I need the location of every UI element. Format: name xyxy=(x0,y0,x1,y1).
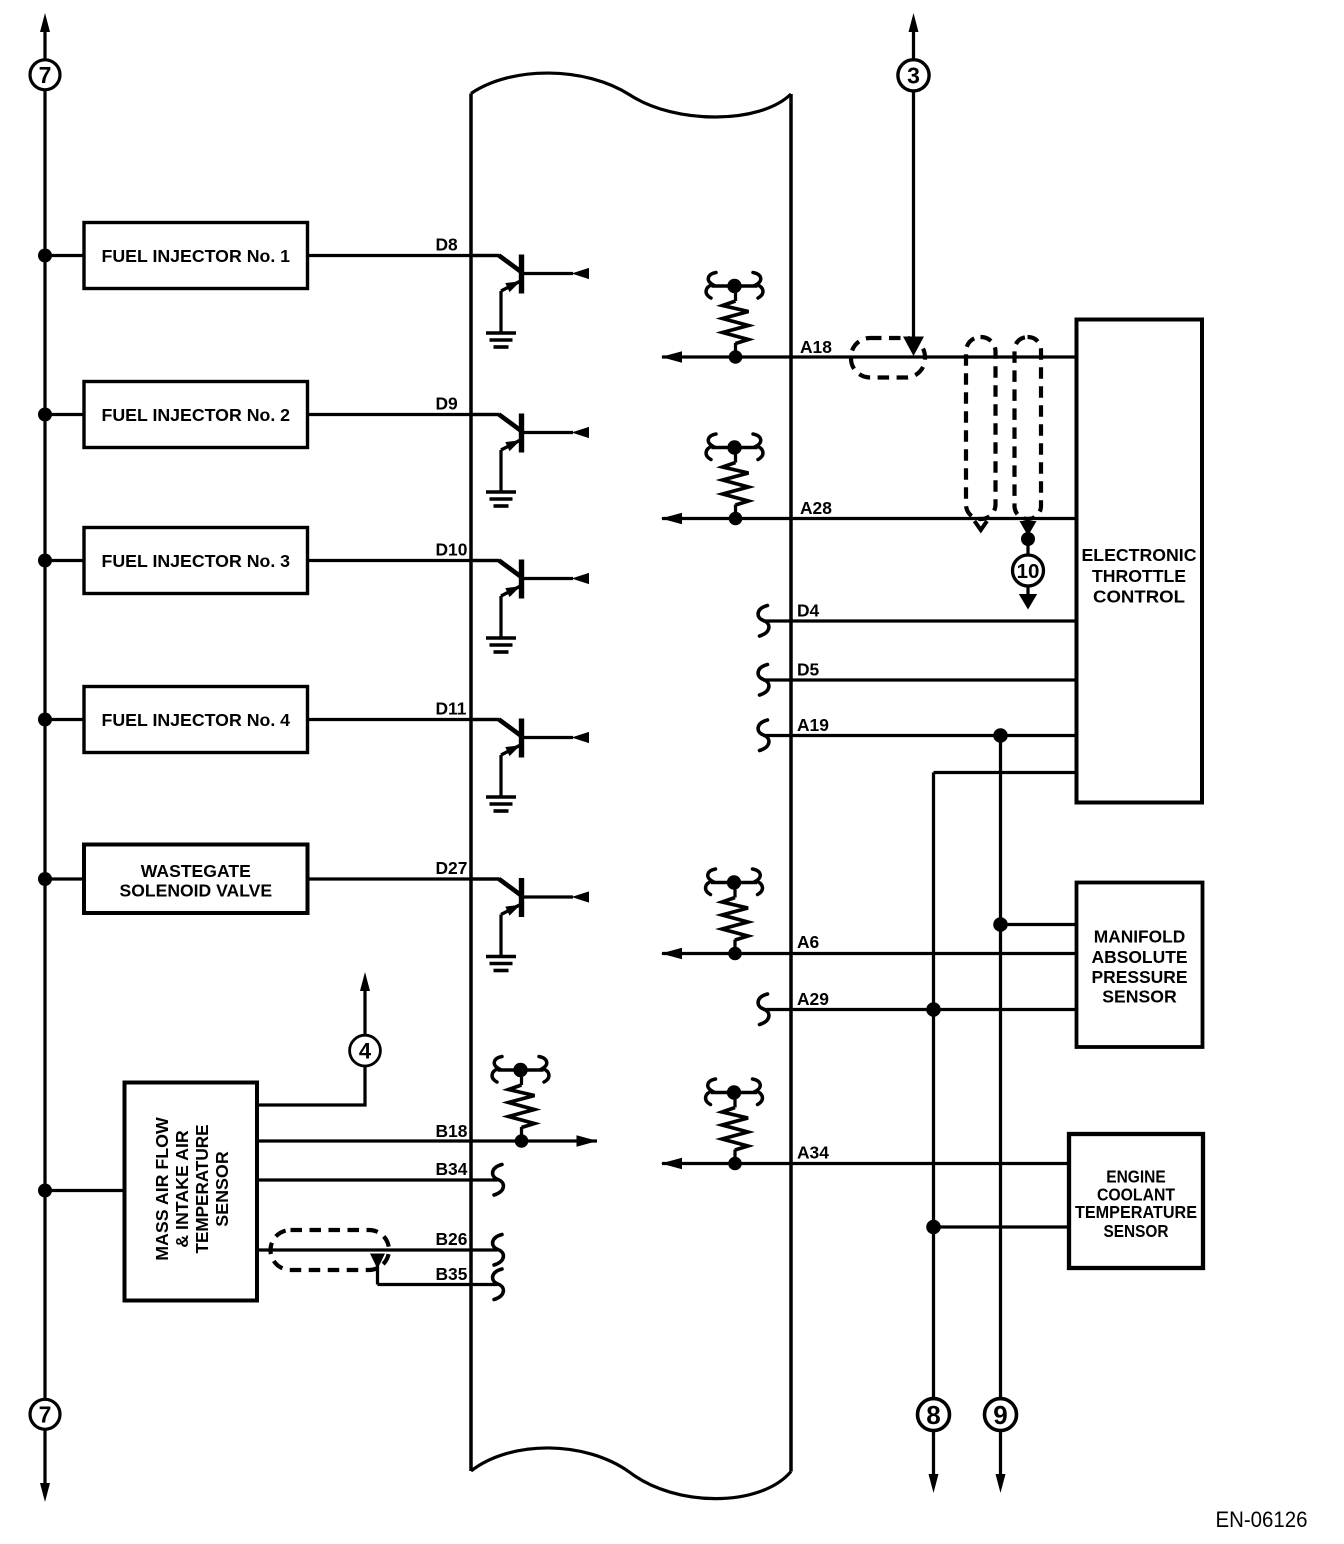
svg-text:TEMPERATURE: TEMPERATURE xyxy=(192,1125,212,1254)
svg-text:MANIFOLD: MANIFOLD xyxy=(1094,927,1186,947)
svg-text:TEMPERATURE: TEMPERATURE xyxy=(1075,1202,1197,1222)
svg-text:4: 4 xyxy=(359,1039,372,1064)
svg-text:B26: B26 xyxy=(436,1229,468,1249)
svg-text:ELECTRONIC: ELECTRONIC xyxy=(1082,545,1197,565)
svg-text:SENSOR: SENSOR xyxy=(1104,1221,1169,1241)
svg-text:FUEL INJECTOR No. 3: FUEL INJECTOR No. 3 xyxy=(102,551,291,571)
svg-text:A19: A19 xyxy=(797,715,829,735)
svg-text:A28: A28 xyxy=(800,498,832,518)
svg-text:7: 7 xyxy=(39,1402,52,1428)
svg-text:A18: A18 xyxy=(800,337,832,357)
svg-text:SENSOR: SENSOR xyxy=(1102,987,1177,1007)
svg-text:B35: B35 xyxy=(436,1264,468,1284)
svg-text:FUEL INJECTOR No. 1: FUEL INJECTOR No. 1 xyxy=(102,246,291,266)
svg-text:SENSOR: SENSOR xyxy=(212,1151,232,1227)
svg-text:D10: D10 xyxy=(436,540,468,560)
svg-text:CONTROL: CONTROL xyxy=(1093,587,1185,607)
svg-text:D5: D5 xyxy=(797,660,820,680)
svg-text:& INTAKE AIR: & INTAKE AIR xyxy=(172,1130,192,1248)
svg-text:WASTEGATE: WASTEGATE xyxy=(141,861,251,881)
svg-text:PRESSURE: PRESSURE xyxy=(1092,967,1188,987)
svg-text:EN-06126: EN-06126 xyxy=(1216,1507,1308,1532)
svg-text:9: 9 xyxy=(993,1400,1007,1430)
svg-text:SOLENOID VALVE: SOLENOID VALVE xyxy=(120,881,273,901)
svg-text:8: 8 xyxy=(926,1400,940,1430)
svg-text:D9: D9 xyxy=(436,394,459,414)
svg-text:3: 3 xyxy=(907,63,920,89)
svg-text:FUEL INJECTOR No. 4: FUEL INJECTOR No. 4 xyxy=(102,710,291,730)
svg-text:FUEL INJECTOR No. 2: FUEL INJECTOR No. 2 xyxy=(102,405,291,425)
svg-text:D11: D11 xyxy=(436,699,467,719)
svg-text:7: 7 xyxy=(39,62,52,88)
svg-text:B18: B18 xyxy=(436,1121,468,1141)
svg-text:D27: D27 xyxy=(436,858,468,878)
svg-text:D8: D8 xyxy=(436,235,459,255)
svg-text:A29: A29 xyxy=(797,989,829,1009)
svg-text:THROTTLE: THROTTLE xyxy=(1092,566,1186,586)
svg-text:ABSOLUTE: ABSOLUTE xyxy=(1092,947,1188,967)
svg-text:D4: D4 xyxy=(797,601,820,621)
svg-text:10: 10 xyxy=(1017,560,1040,583)
svg-text:A6: A6 xyxy=(797,932,820,952)
svg-text:B34: B34 xyxy=(436,1159,468,1179)
svg-text:MASS AIR FLOW: MASS AIR FLOW xyxy=(152,1117,172,1261)
svg-text:A34: A34 xyxy=(797,1143,829,1163)
